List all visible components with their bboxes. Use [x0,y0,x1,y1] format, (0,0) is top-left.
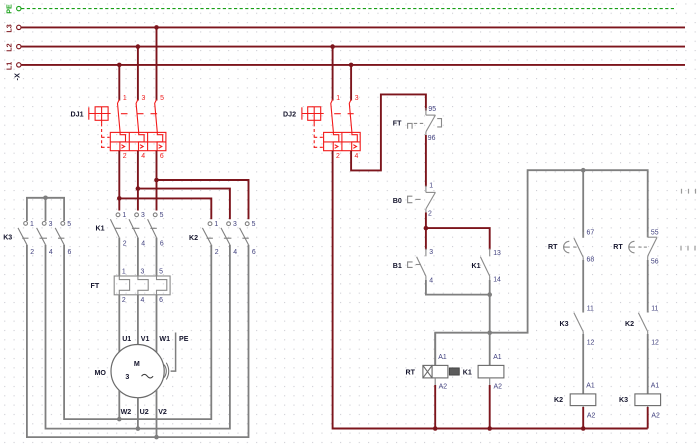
svg-text:K3: K3 [619,396,628,404]
auxiliary contact K1 13-14 [480,249,489,282]
wire FT to B0 [425,135,427,187]
node T-junction phase 1 [117,196,122,201]
svg-text:FT: FT [393,120,402,128]
node top bus [581,168,586,173]
svg-text:4: 4 [141,153,145,160]
svg-text:A1: A1 [651,382,660,389]
timer coil RT [423,333,448,378]
svg-text:RT: RT [613,243,623,251]
svg-text:5: 5 [252,221,256,228]
wire RT 56 to K2 contact [647,260,649,313]
svg-text:6: 6 [252,249,256,256]
svg-text:4: 4 [141,297,145,304]
wire jumper phase3 to K2 pole 5 [157,180,249,219]
svg-text:5: 5 [160,95,164,102]
mechanical link block K1 [449,368,459,375]
svg-text:RT: RT [406,369,416,377]
node K2 coil on rail [581,426,586,431]
svg-text:4: 4 [141,241,145,248]
L3 rail [4,24,685,32]
svg-text:6: 6 [160,153,164,160]
wire L3 to DJ1 pole 5 [156,27,158,100]
svg-text:K2: K2 [554,396,563,404]
node after B0 [424,226,429,231]
svg-text:1: 1 [122,268,126,275]
svg-text:1: 1 [214,221,218,228]
start button B1 3-4 [408,249,426,282]
svg-text:A2: A2 [494,383,503,390]
edge dashes upper [682,189,696,194]
motor frame arcs [164,363,169,380]
svg-text:3: 3 [142,95,146,102]
wire node to B1 [425,228,427,249]
wires K1 poles to FT [118,238,120,276]
wire K3 contact to K2 coil [582,334,584,394]
contactor K3 (3 NO poles) [18,222,65,245]
contactor coil K3 [635,394,661,406]
svg-text:4: 4 [233,249,237,256]
timer contact RT 67-68 (NO delayed) [564,232,584,262]
wire jumper phase2 to K2 pole 3 [138,189,230,220]
svg-text:PE: PE [179,335,189,343]
wire DJ2 pole 2 to bottom rail [333,151,648,429]
svg-text:1: 1 [30,221,34,228]
wire motor U2 down [137,398,139,429]
svg-text:FT: FT [91,282,100,290]
svg-text:6: 6 [159,297,163,304]
svg-text:MO: MO [95,369,107,377]
node L3/DJ1 [154,25,159,30]
svg-text:96: 96 [428,135,436,142]
svg-text:1: 1 [336,95,340,102]
svg-text:K1: K1 [472,262,481,270]
overload contact FT 95-96 [408,108,442,137]
edge dashes lower [681,246,695,251]
motor MO (3~) [111,345,164,398]
node RT coil on rail [433,426,438,431]
node K1 coil on rail [487,426,492,431]
star bridge bus of K3 [27,198,64,221]
svg-text:2: 2 [30,249,34,256]
svg-text:11: 11 [587,306,594,313]
svg-text:95: 95 [428,106,436,113]
L2 rail [4,43,685,51]
wire K1 coil to bottom rail [489,378,491,385]
wire RT 68 to K3 contact [582,260,584,313]
timer contact RT 55-56 (NC delayed) [629,232,657,262]
svg-text:13: 13 [493,250,501,257]
node L2/DJ2 [330,44,335,49]
svg-text:14: 14 [493,276,501,283]
circuit breaker DJ2 [302,100,360,151]
svg-text:A1: A1 [586,382,595,389]
wire DJ1 pole 4 to K1 pole 3 [137,151,139,211]
svg-text:3: 3 [141,212,145,219]
node U2 junction [136,426,141,431]
svg-text:V2: V2 [158,408,167,416]
svg-text:5: 5 [159,268,163,275]
L1 rail [4,62,685,70]
svg-text:3: 3 [141,268,145,275]
contactor K1 (3 NO poles) [110,213,157,238]
node L2/DJ1 [136,44,141,49]
contactor coil K1 [478,333,504,378]
svg-text:RT: RT [548,243,558,251]
svg-text:11: 11 [651,306,658,313]
wire L2 to DJ2 pole 1 [332,47,334,101]
svg-text:U2: U2 [140,408,149,416]
wire RT coil to bottom rail [434,378,436,385]
svg-text:A2: A2 [439,383,448,390]
svg-text:K3: K3 [3,234,12,242]
svg-text:M: M [134,360,140,368]
svg-text:1: 1 [122,212,126,219]
svg-text:68: 68 [587,257,595,264]
node L1/DJ2 [349,63,354,68]
wire L1 to DJ1 pole 1 [118,65,120,101]
svg-text:K1: K1 [463,369,472,377]
thermal overload relay FT (power) [114,276,170,295]
wire K3 coil to bottom rail [647,406,649,408]
svg-text:6: 6 [68,249,72,256]
svg-text:3: 3 [355,95,359,102]
wire DJ1 pole 6 to K1 pole 5 [156,151,158,211]
svg-text:4: 4 [355,153,359,160]
svg-text:55: 55 [651,229,659,236]
svg-text:1: 1 [123,95,127,102]
svg-text:2: 2 [428,210,432,217]
svg-text:A2: A2 [651,413,660,420]
svg-text:1: 1 [429,183,433,190]
svg-text:B0: B0 [393,197,402,205]
svg-text:K2: K2 [625,320,634,328]
svg-text:5: 5 [67,221,71,228]
svg-text:A1: A1 [493,354,502,361]
svg-text:K2: K2 [189,234,198,242]
svg-text:3: 3 [49,221,53,228]
svg-text:K3: K3 [560,320,569,328]
svg-text:4: 4 [429,277,433,284]
auxiliary contact K2 11-12 [638,310,647,337]
node V2 junction [154,435,159,440]
svg-text:2: 2 [215,249,219,256]
wire motor W2 down [118,390,120,419]
contactor coil K2 [570,394,596,406]
node K1 coil feed [487,330,492,335]
contactor K2 (3 NO poles) [202,222,249,245]
svg-text:12: 12 [587,340,595,347]
svg-text:PE: PE [4,4,13,14]
svg-text:2: 2 [123,153,127,160]
svg-text:56: 56 [651,258,659,265]
svg-text:6: 6 [160,241,164,248]
wire K3 pole 6 down [64,245,211,419]
stop button B0 1-2 [408,186,436,215]
svg-text:V1: V1 [141,335,150,343]
svg-text:L3: L3 [4,24,13,32]
svg-text:A2: A2 [587,413,596,420]
wire L1 to DJ2 pole 3 [350,65,352,101]
auxiliary contact K3 11-12 [574,310,583,337]
wire L2 to DJ1 pole 3 [137,47,139,101]
wire K1 contact down [489,280,491,333]
node T-junction phase 3 [154,178,159,183]
svg-text:A1: A1 [438,354,447,361]
wires FT to motor [118,295,120,352]
wire jumper phase1 to K2 pole 1 [119,198,211,219]
wire top bus to RT 67 [582,170,584,238]
svg-text:2: 2 [123,241,127,248]
svg-text:B1: B1 [393,262,402,270]
node T-junction phase 2 [136,186,141,191]
wire K2 coil to bottom rail [582,406,584,408]
circuit breaker DJ1 [89,100,166,151]
svg-text:K1: K1 [96,225,105,233]
wire B0 to node [425,213,427,229]
PE rail [4,4,674,14]
svg-text:DJ2: DJ2 [283,111,296,119]
svg-text:2: 2 [336,153,340,160]
node B1/K1 parallel [487,292,492,297]
svg-text:3: 3 [429,249,433,256]
wire B1 to junction [426,280,490,295]
svg-text:U1: U1 [122,335,131,343]
svg-text:L1: L1 [4,62,13,70]
svg-text:67: 67 [587,229,595,236]
wire DJ2 pole 4 to FT contact [351,94,426,170]
wire node to K1 contact [426,228,490,249]
wire DJ1 pole 2 to K1 pole 1 [118,151,120,211]
svg-text:DJ1: DJ1 [71,111,84,119]
wire motor V2 down [156,390,158,437]
PE wire to motor frame [171,333,176,372]
node L1/DJ1 [117,63,122,68]
coil feeder rail [435,170,648,365]
svg-text:4: 4 [49,249,53,256]
svg-text:3: 3 [233,221,237,228]
node W2 junction [117,417,122,422]
svg-text:W1: W1 [159,335,170,343]
wire K3 pole 4 down [46,245,230,429]
svg-text:W2: W2 [121,408,132,416]
node K3 star bridge [43,196,48,201]
svg-text:12: 12 [651,340,659,347]
wire K2 contact to K3 coil [647,334,649,394]
svg-text:2: 2 [122,297,126,304]
svg-text:3: 3 [125,373,129,381]
svg-text:L2: L2 [4,43,13,51]
svg-text:5: 5 [160,212,164,219]
wire K3 pole 2 down [27,245,249,437]
svg-text:-X: -X [13,73,22,80]
